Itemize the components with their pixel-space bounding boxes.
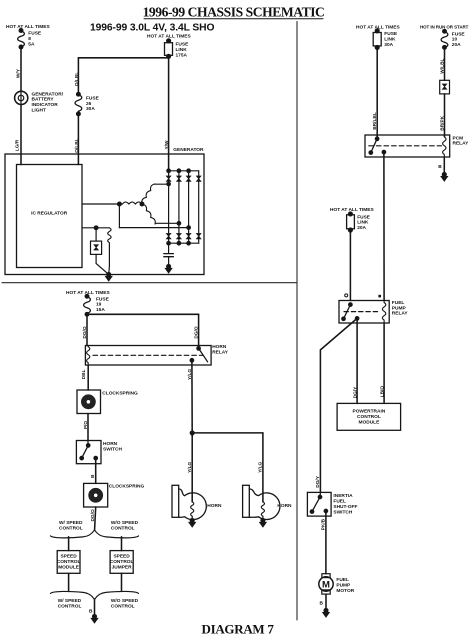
svg-text:B: B (90, 474, 96, 478)
wire DG/O to speed control (95, 507, 96, 530)
diode D2 (177, 176, 182, 181)
wire sense node down (118, 204, 120, 228)
svg-text:15A: 15A (96, 307, 105, 313)
svg-text:GENERATOR: GENERATOR (173, 147, 204, 153)
svg-text:HORN: HORN (277, 503, 292, 509)
svg-text:DG/Y: DG/Y (353, 386, 359, 399)
rectifier bridge bottom bus (169, 242, 199, 244)
indicator light L1 generator/battery (15, 91, 64, 113)
svg-text:LINK: LINK (176, 47, 188, 53)
svg-text:HOT IN RUN OR START: HOT IN RUN OR START (420, 24, 469, 29)
ground symbol generator case (105, 276, 112, 281)
wire IC regulator field output (82, 227, 109, 229)
fuse link 30A (373, 29, 398, 49)
junction top bus c3 (187, 169, 190, 172)
wire DBL (87, 365, 89, 390)
svg-text:CLOCKSPRING: CLOCKSPRING (102, 390, 138, 396)
horn relay dashed link (93, 354, 203, 356)
clockspring 2 box (84, 483, 108, 507)
svg-text:SPEED: SPEED (60, 554, 77, 560)
section divider vertical (296, 22, 298, 621)
wire sense node to column 3 (119, 227, 188, 229)
bridge column 2 (178, 171, 180, 243)
wire to speed control jumper (121, 537, 123, 551)
svg-text:B: B (320, 601, 324, 607)
svg-text:JUMPER: JUMPER (112, 564, 133, 570)
wire O/LBL upper (77, 58, 79, 94)
junction motor ground (324, 609, 328, 613)
horn 2 (243, 485, 292, 527)
svg-text:P/O: P/O (83, 421, 89, 430)
PCM relay switch (369, 137, 385, 154)
svg-text:DG/O: DG/O (90, 509, 96, 522)
svg-text:O/LBL: O/LBL (74, 72, 80, 86)
svg-text:DG/O: DG/O (194, 326, 200, 339)
wire DG/Y branch to inertia switch (320, 318, 357, 492)
svg-text:W/LBL: W/LBL (440, 58, 446, 73)
wire stator sense to IC regulator (82, 203, 122, 205)
svg-text:DG/O: DG/O (82, 326, 88, 339)
PCM relay coil (443, 136, 446, 157)
fuse 8 5A (18, 29, 42, 49)
svg-text:CONTROL: CONTROL (57, 559, 81, 565)
fuel pump relay switch (342, 303, 359, 320)
svg-text:FUEL: FUEL (336, 577, 349, 583)
svg-text:FUSE: FUSE (28, 31, 42, 37)
svg-text:BATTERY: BATTERY (32, 97, 55, 103)
junction PCM relay ground (443, 173, 447, 177)
svg-text:GENERATOR/: GENERATOR/ (32, 91, 64, 97)
svg-text:10: 10 (452, 37, 458, 43)
net label HOT AT ALL TIMES (fuse link 20A) (330, 207, 375, 213)
junction field node (94, 226, 97, 229)
svg-text:8: 8 (28, 36, 31, 42)
wire jumper to brace bottom (121, 573, 123, 591)
splice terminal square (378, 295, 381, 298)
wire PCM relay output to fuel pump relay (383, 152, 385, 300)
net label HOT AT ALL TIMES (fuse link 175A) (147, 34, 192, 40)
junction top bus c1 (167, 169, 170, 172)
horn relay label (212, 344, 229, 355)
wire tee to horn relay contacts (87, 313, 199, 315)
wire LG/R (20, 105, 22, 165)
svg-text:FUEL: FUEL (392, 300, 405, 306)
wire module to brace bottom (68, 573, 70, 591)
field winding coil (108, 228, 111, 244)
svg-text:LINK: LINK (384, 37, 396, 43)
svg-text:RELAY: RELAY (212, 349, 229, 355)
diode D1 (166, 176, 171, 181)
bridge column 3 (188, 171, 190, 243)
svg-text:RELAY: RELAY (453, 141, 470, 147)
wire fuse link 20A to relay (349, 230, 351, 301)
horn relay switch (190, 347, 207, 362)
wire BR/LBL (376, 47, 378, 138)
svg-text:W/ SPEED: W/ SPEED (58, 598, 82, 604)
wire bridge output to capacitor (168, 243, 170, 253)
svg-text:HOT AT ALL TIMES: HOT AT ALL TIMES (6, 24, 51, 30)
svg-text:PCM: PCM (453, 135, 464, 141)
wire Y/W (168, 56, 170, 171)
wire Y/LG from relay (191, 360, 193, 433)
svg-text:MODULE: MODULE (359, 420, 381, 426)
powertrain control module box (337, 403, 401, 430)
svg-text:CONTROL: CONTROL (58, 603, 82, 609)
svg-text:FUSE: FUSE (96, 296, 110, 302)
svg-text:HORN: HORN (103, 441, 118, 447)
junction stator center (140, 202, 143, 205)
svg-text:CLOCKSPRING: CLOCKSPRING (109, 484, 145, 490)
svg-text:PUMP: PUMP (336, 583, 351, 589)
svg-text:SWITCH: SWITCH (333, 509, 352, 515)
svg-text:SHUT-OFF: SHUT-OFF (333, 504, 357, 510)
svg-text:LIGHT: LIGHT (32, 108, 46, 114)
svg-text:LINK: LINK (357, 220, 369, 226)
speed control module box (57, 551, 80, 574)
diode D4 (196, 176, 201, 181)
IC regulator U1 (17, 165, 83, 268)
stator winding phase B coil (122, 202, 142, 204)
horn relay coil (87, 346, 90, 365)
wire field node to suppression diode (95, 228, 97, 241)
svg-text:Y/W: Y/W (164, 140, 170, 150)
svg-text:RELAY: RELAY (392, 311, 409, 317)
PCM relay dashed link (369, 145, 442, 147)
svg-text:FUSE: FUSE (452, 31, 466, 37)
wire diode to ground (96, 254, 109, 274)
net label HOT IN RUN OR START (420, 24, 469, 29)
wire LB/O coil to PCM (383, 323, 385, 403)
svg-text:30A: 30A (86, 106, 95, 112)
diode assembly CR2 box (440, 80, 450, 94)
svg-text:FUEL: FUEL (333, 499, 346, 505)
ground symbol capacitor (165, 268, 172, 273)
svg-text:20A: 20A (357, 225, 366, 231)
option brace top (51, 530, 139, 538)
label w/ speed control top (59, 520, 83, 531)
generator G1 box (5, 154, 204, 275)
speed control jumper box (110, 551, 133, 574)
horn switch S1 box (76, 441, 101, 464)
clockspring 1 coil (84, 397, 93, 406)
title underline (144, 18, 323, 20)
wire Y/LG to horn 1 (191, 433, 193, 502)
section divider horizontal (2, 282, 297, 284)
junction bottom bus c2 (177, 242, 180, 245)
generator G1 label (173, 147, 204, 153)
horn switch S1 contacts (80, 441, 97, 460)
diode D3 (186, 176, 191, 181)
horn 1 (172, 485, 222, 527)
svg-text:Y/LG: Y/LG (187, 369, 193, 380)
net label HOT AT ALL TIMES (fuse 19) (66, 290, 111, 296)
svg-text:1996-99 3.0L 4V, 3.4L SHO: 1996-99 3.0L 4V, 3.4L SHO (90, 23, 214, 34)
junction capacitor ground (167, 265, 171, 269)
fuse link 175A (165, 39, 190, 58)
svg-text:PK/B: PK/B (321, 518, 327, 530)
junction bottom bus c3 (187, 242, 190, 245)
wire DG/O left (86, 314, 88, 345)
svg-text:PUMP: PUMP (392, 305, 407, 311)
diode D7 (186, 234, 191, 239)
svg-text:CONTROL: CONTROL (59, 525, 83, 531)
junction top bus c2 (177, 169, 180, 172)
svg-text:W/O SPEED: W/O SPEED (111, 520, 139, 526)
fuse 26 30A (75, 93, 100, 116)
suppression diode CR1 symbol (94, 245, 99, 250)
svg-text:W/ SPEED: W/ SPEED (59, 520, 83, 526)
wire Y/LG to horn 2 (262, 433, 264, 502)
svg-text:LG/R: LG/R (15, 139, 21, 151)
fuse 19 15A (84, 295, 110, 316)
wire W/LBL (444, 47, 446, 80)
wire to speed control module (68, 537, 70, 551)
svg-text:DBL: DBL (81, 369, 87, 379)
PCM relay K2 box (365, 135, 450, 157)
capacitor C1 (164, 254, 174, 257)
wire BR/PK (444, 94, 446, 137)
diode assembly CR2 symbol (442, 84, 447, 89)
wire DG/O right (198, 314, 200, 345)
wire B horn switch out (95, 458, 97, 483)
option brace bottom (51, 591, 139, 599)
svg-text:SWITCH: SWITCH (103, 446, 122, 452)
label w/o speed control top (111, 520, 139, 531)
fuel pump motor M1 (319, 574, 355, 594)
svg-text:W/O SPEED: W/O SPEED (111, 598, 139, 604)
svg-text:POWERTRAIN: POWERTRAIN (353, 409, 386, 415)
svg-text:INERTIA: INERTIA (333, 493, 353, 499)
fuse 10 20A (441, 30, 465, 50)
wire PK/B (325, 511, 327, 574)
junction horn feed (190, 431, 194, 435)
wire phase A to bridge (155, 183, 169, 185)
svg-text:FUSE: FUSE (86, 96, 100, 102)
wire tee from fuse link to fuse 26 branch (78, 57, 168, 59)
svg-text:BR/PK: BR/PK (439, 115, 445, 130)
svg-text:CONTROL: CONTROL (357, 414, 381, 420)
ground symbol speed control (91, 618, 98, 623)
bridge column 1 (168, 171, 170, 243)
svg-text:26: 26 (86, 101, 92, 107)
fuel pump relay coil (382, 301, 385, 323)
wire phase C to bridge (155, 222, 179, 224)
suppression diode CR1 box (91, 241, 102, 254)
svg-text:CONTROL: CONTROL (110, 559, 134, 565)
caption DIAGRAM 7 (202, 622, 275, 637)
svg-text:MOTOR: MOTOR (336, 588, 354, 594)
wire B motor ground (325, 594, 327, 609)
fuel pump relay label (392, 300, 409, 317)
svg-text:HOT AT ALL TIMES: HOT AT ALL TIMES (330, 207, 375, 213)
PCM relay label (453, 135, 470, 146)
svg-text:FUSE: FUSE (384, 31, 398, 37)
svg-text:FUSE: FUSE (176, 42, 190, 48)
svg-text:30A: 30A (384, 42, 393, 48)
horn relay K1 box (85, 346, 211, 366)
diode D8 (196, 234, 201, 239)
svg-text:SPEED: SPEED (113, 554, 130, 560)
svg-text:LB/O: LB/O (380, 386, 386, 398)
junction column 3 (187, 226, 190, 229)
inertia switch contacts (310, 492, 327, 513)
label w/o speed control bottom (111, 598, 139, 609)
svg-text:Y/LG: Y/LG (187, 461, 193, 472)
svg-text:DG/Y: DG/Y (315, 475, 321, 488)
svg-text:20A: 20A (452, 42, 461, 48)
inertia fuel shut-off switch S2 box (307, 492, 331, 516)
svg-text:19: 19 (96, 302, 102, 308)
label w/ speed control bottom (58, 598, 82, 609)
svg-text:1996-99 CHASSIS SCHEMATIC: 1996-99 CHASSIS SCHEMATIC (143, 4, 325, 19)
title (143, 4, 325, 19)
stator winding phase C coil (142, 203, 157, 224)
bridge column 4 (198, 171, 200, 243)
svg-text:B: B (438, 164, 442, 170)
junction ground speed control (93, 615, 97, 619)
svg-text:O/LBL: O/LBL (74, 138, 80, 152)
junction ground node (107, 273, 111, 277)
connector terminal circle (345, 294, 348, 297)
junction phase A (167, 182, 170, 185)
svg-text:CONTROL: CONTROL (111, 603, 135, 609)
wire capacitor to ground (168, 257, 170, 266)
junction stator sense node (118, 202, 121, 205)
rectifier bridge top bus (169, 170, 199, 172)
fuel pump relay dashed link (344, 311, 378, 313)
ground symbol motor (322, 612, 329, 617)
wire W/Y (20, 47, 22, 91)
junction phase C on column 2 (177, 222, 180, 225)
wire horn feed tee (192, 432, 263, 434)
svg-text:MODULE: MODULE (58, 564, 80, 570)
net label HOT AT ALL TIMES (fuse link 30A) (356, 24, 401, 30)
wire P/O (87, 414, 89, 441)
svg-text:HORN: HORN (212, 344, 227, 350)
stator winding phase A coil (140, 183, 155, 204)
svg-text:CONTROL: CONTROL (111, 525, 135, 531)
diode D6 (177, 234, 182, 239)
junction bottom bus c1 (167, 242, 170, 245)
fuel pump relay K3 box (339, 301, 389, 324)
fuse link 20A (347, 212, 371, 232)
wire B to ground (94, 600, 96, 616)
subtitle (90, 23, 214, 34)
svg-text:W/Y: W/Y (15, 68, 21, 78)
clockspring 1 box (77, 390, 101, 414)
ground symbol PCM relay (441, 176, 448, 181)
svg-text:IC REGULATOR: IC REGULATOR (31, 210, 68, 216)
svg-text:FUSE: FUSE (357, 214, 371, 220)
svg-text:175A: 175A (176, 52, 188, 58)
clockspring 2 coil (91, 491, 100, 500)
svg-text:BR/LBL: BR/LBL (372, 112, 378, 130)
svg-text:5A: 5A (28, 41, 35, 47)
wire B PCM relay ground (443, 157, 445, 173)
wire DG/Y to PCM (356, 318, 358, 403)
svg-text:DIAGRAM 7: DIAGRAM 7 (202, 622, 275, 637)
svg-text:INDICATOR: INDICATOR (32, 102, 59, 108)
wire O/LBL lower (77, 114, 79, 165)
svg-text:Y/LG: Y/LG (258, 461, 264, 472)
svg-text:HORN: HORN (207, 503, 222, 509)
svg-text:M: M (322, 579, 330, 590)
wire field coil to ground (108, 244, 111, 275)
svg-text:B: B (89, 608, 93, 614)
diode D5 (166, 234, 171, 239)
net label HOT AT ALL TIMES (fuse 8) (6, 24, 51, 30)
